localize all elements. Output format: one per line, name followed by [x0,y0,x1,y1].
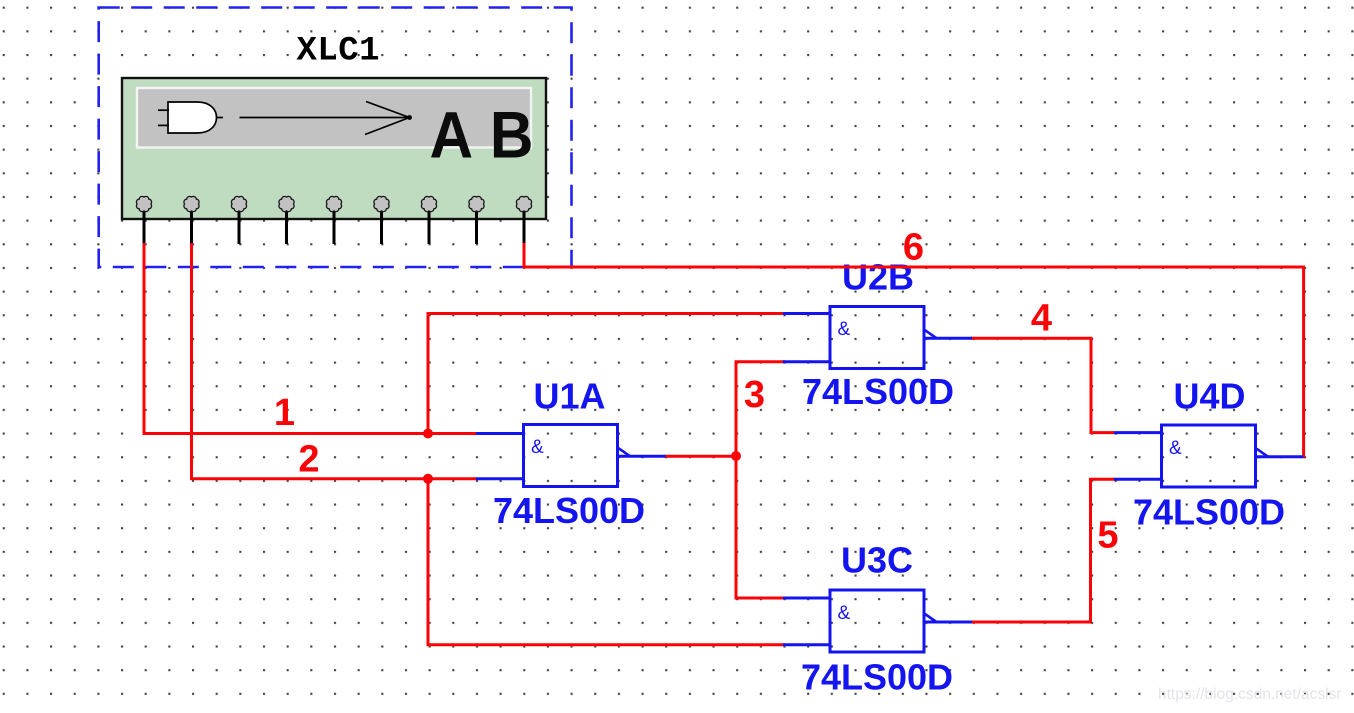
pin terminals 1-9 [136,196,531,211]
wire net 1 : pin1 to U1A input A and U2B input A [144,243,785,434]
svg-text:&: & [531,437,544,458]
svg-text:5: 5 [1097,515,1118,557]
svg-text:74LS00D: 74LS00D [802,371,954,412]
svg-text:https://blog.csdn.net/acslsr: https://blog.csdn.net/acslsr [1158,686,1342,703]
svg-text:74LS00D: 74LS00D [801,657,953,698]
svg-text:U3C: U3C [841,540,913,581]
NAND gate U4D [1114,425,1304,487]
svg-text:74LS00D: 74LS00D [1133,492,1285,533]
NAND gate U2B [783,307,972,369]
NAND gate U3C [783,590,972,652]
instrument XLC1 dashed selection boundary [99,8,572,268]
svg-text:U4D: U4D [1173,376,1245,417]
AND gate icon [158,102,223,133]
svg-text:6: 6 [903,227,924,269]
junction on net 3 [731,451,741,461]
svg-text:U1A: U1A [533,376,605,417]
junction on net 2 [423,474,433,484]
svg-text:&: & [1169,438,1182,459]
logic converter body [122,78,546,219]
wire net 6 : pin9 to U4D output [524,243,1304,457]
junction on net 1 [423,429,433,439]
wire net 4 : U2B output to U4D input A [971,338,1115,432]
wire net 2 : pin2 to U1A input B and U3C input B [192,243,786,645]
svg-text:4: 4 [1031,298,1052,340]
display panel [137,88,531,148]
svg-text:A B: A B [430,98,534,172]
pin stubs [144,204,524,244]
svg-text:XLC1: XLC1 [297,33,380,71]
svg-text:&: & [838,603,851,624]
wire net 3 : U1A output to U2B.B and U3C.A [664,362,785,598]
svg-text:2: 2 [298,439,319,481]
svg-text:1: 1 [274,392,295,434]
NAND gate U1A [476,425,666,487]
arrow [240,102,410,135]
svg-text:3: 3 [744,374,765,416]
svg-text:&: & [838,319,851,340]
svg-text:74LS00D: 74LS00D [493,490,645,531]
wire net 5 : U3C output to U4D input B [971,479,1115,622]
